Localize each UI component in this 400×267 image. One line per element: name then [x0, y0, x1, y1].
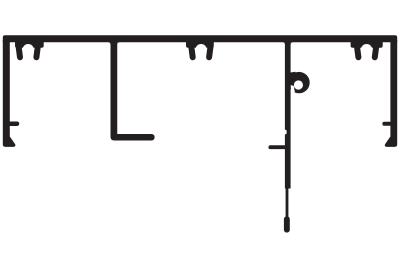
hook 1 left leg	[19, 47, 20, 58]
keyhole 2 circle	[196, 44, 207, 55]
middle bulb	[284, 219, 290, 230]
hook 3 right leg	[375, 47, 376, 58]
middle tick	[270, 145, 286, 149]
middle rod	[286, 189, 289, 221]
ring gap cut	[291, 85, 295, 97]
right wall	[385, 40, 397, 147]
hook 2 slab	[186, 41, 214, 48]
ring wall stub	[290, 72, 295, 79]
keyhole 3 circle	[361, 44, 372, 55]
top bar	[3, 35, 397, 42]
keyhole 3 channel	[361, 52, 371, 63]
keyhole 1 circle	[23, 44, 34, 55]
hook 1 slab	[15, 41, 44, 48]
keyhole 1 channel	[23, 52, 33, 63]
hook 3 slab	[351, 41, 383, 48]
right tick	[384, 122, 390, 126]
keyhole 2 channel	[196, 52, 206, 63]
left tick	[10, 122, 17, 127]
hook 2 right leg	[209, 47, 210, 58]
middle wall	[285, 41, 291, 189]
middle wall junction fillets	[283, 42, 285, 45]
wall left notch	[284, 130, 286, 135]
hook 1 right leg	[36, 47, 37, 58]
hook 3 left leg	[357, 47, 358, 58]
L profile	[111, 41, 155, 141]
left wall	[3, 40, 16, 147]
L junction fillets	[108, 42, 110, 45]
middle hook ring	[288, 72, 309, 93]
hook 2 left leg	[191, 47, 192, 58]
